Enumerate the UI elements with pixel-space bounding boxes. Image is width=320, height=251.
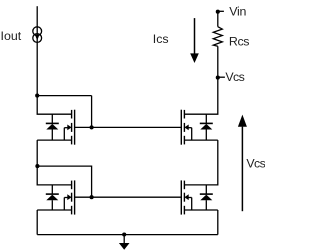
- transistor M4 (bottom-right NMOS): [181, 180, 218, 214]
- diode D4 (body diode of M4): [200, 185, 213, 210]
- wire M4 source to bottom rail: [217, 210, 219, 235]
- node B junction dot (top gates): [90, 125, 94, 129]
- arrow Ics (current direction): [190, 18, 199, 63]
- transistor M2 (top-right NMOS: gate left, leads right): [181, 110, 218, 145]
- node D junction dot (bottom gates): [90, 195, 94, 199]
- transistor M3 (bottom-left NMOS, mirrored): [37, 180, 91, 214]
- wire vertical drop to top gate bus: [91, 96, 93, 128]
- node A junction dot (Iout rail): [35, 94, 39, 98]
- svg-text:Vin: Vin: [229, 4, 246, 18]
- wire bottom rail: [37, 234, 218, 236]
- tick at Vin: [219, 10, 224, 12]
- wire M2 source down right rail: [184, 140, 217, 185]
- wire M1 source down left rail: [36, 140, 38, 166]
- diode D1 (body diode of M1): [46, 114, 59, 140]
- svg-text:Vcs: Vcs: [246, 157, 265, 171]
- wire node A to gate-bus drop: [37, 95, 91, 97]
- transistor M1 (top-left NMOS, mirrored: leads left, gate right): [37, 110, 91, 145]
- current source CS1 (double circle): [33, 27, 42, 43]
- wire M3 source to bottom rail: [36, 210, 38, 235]
- node E junction dot (ground tap): [122, 232, 126, 236]
- svg-text:Iout: Iout: [1, 29, 22, 43]
- wire Iout vertical feed: [36, 6, 38, 95]
- ground arrow: [119, 235, 130, 250]
- arrow Vcs (voltage measure, right): [238, 115, 247, 212]
- wire -Vcs down to M2 drain: [184, 78, 217, 114]
- node -Vcs dot: [216, 76, 220, 80]
- resistor Rcs: [213, 27, 222, 47]
- diode D3 (body diode of M3): [46, 185, 59, 210]
- node Vin dot: [216, 10, 220, 14]
- wire bottom gate bus: [92, 196, 182, 198]
- wire top gate bus: [92, 126, 182, 128]
- wire Iout rail down to M1 drain: [37, 96, 71, 115]
- svg-text:Vcs: Vcs: [225, 70, 244, 84]
- wire left rail down to M3 drain: [37, 166, 71, 185]
- wire Vin to resistor: [217, 12, 219, 27]
- tick at -Vcs: [219, 76, 225, 78]
- wire mid bus to bottom gate drop: [37, 166, 91, 197]
- wire resistor to -Vcs node: [217, 46, 219, 78]
- node C junction dot (left mid rail): [35, 164, 39, 168]
- svg-text:Ics: Ics: [153, 32, 169, 46]
- diode D2 (body diode of M2): [200, 114, 213, 140]
- svg-text:Rcs: Rcs: [229, 34, 249, 48]
